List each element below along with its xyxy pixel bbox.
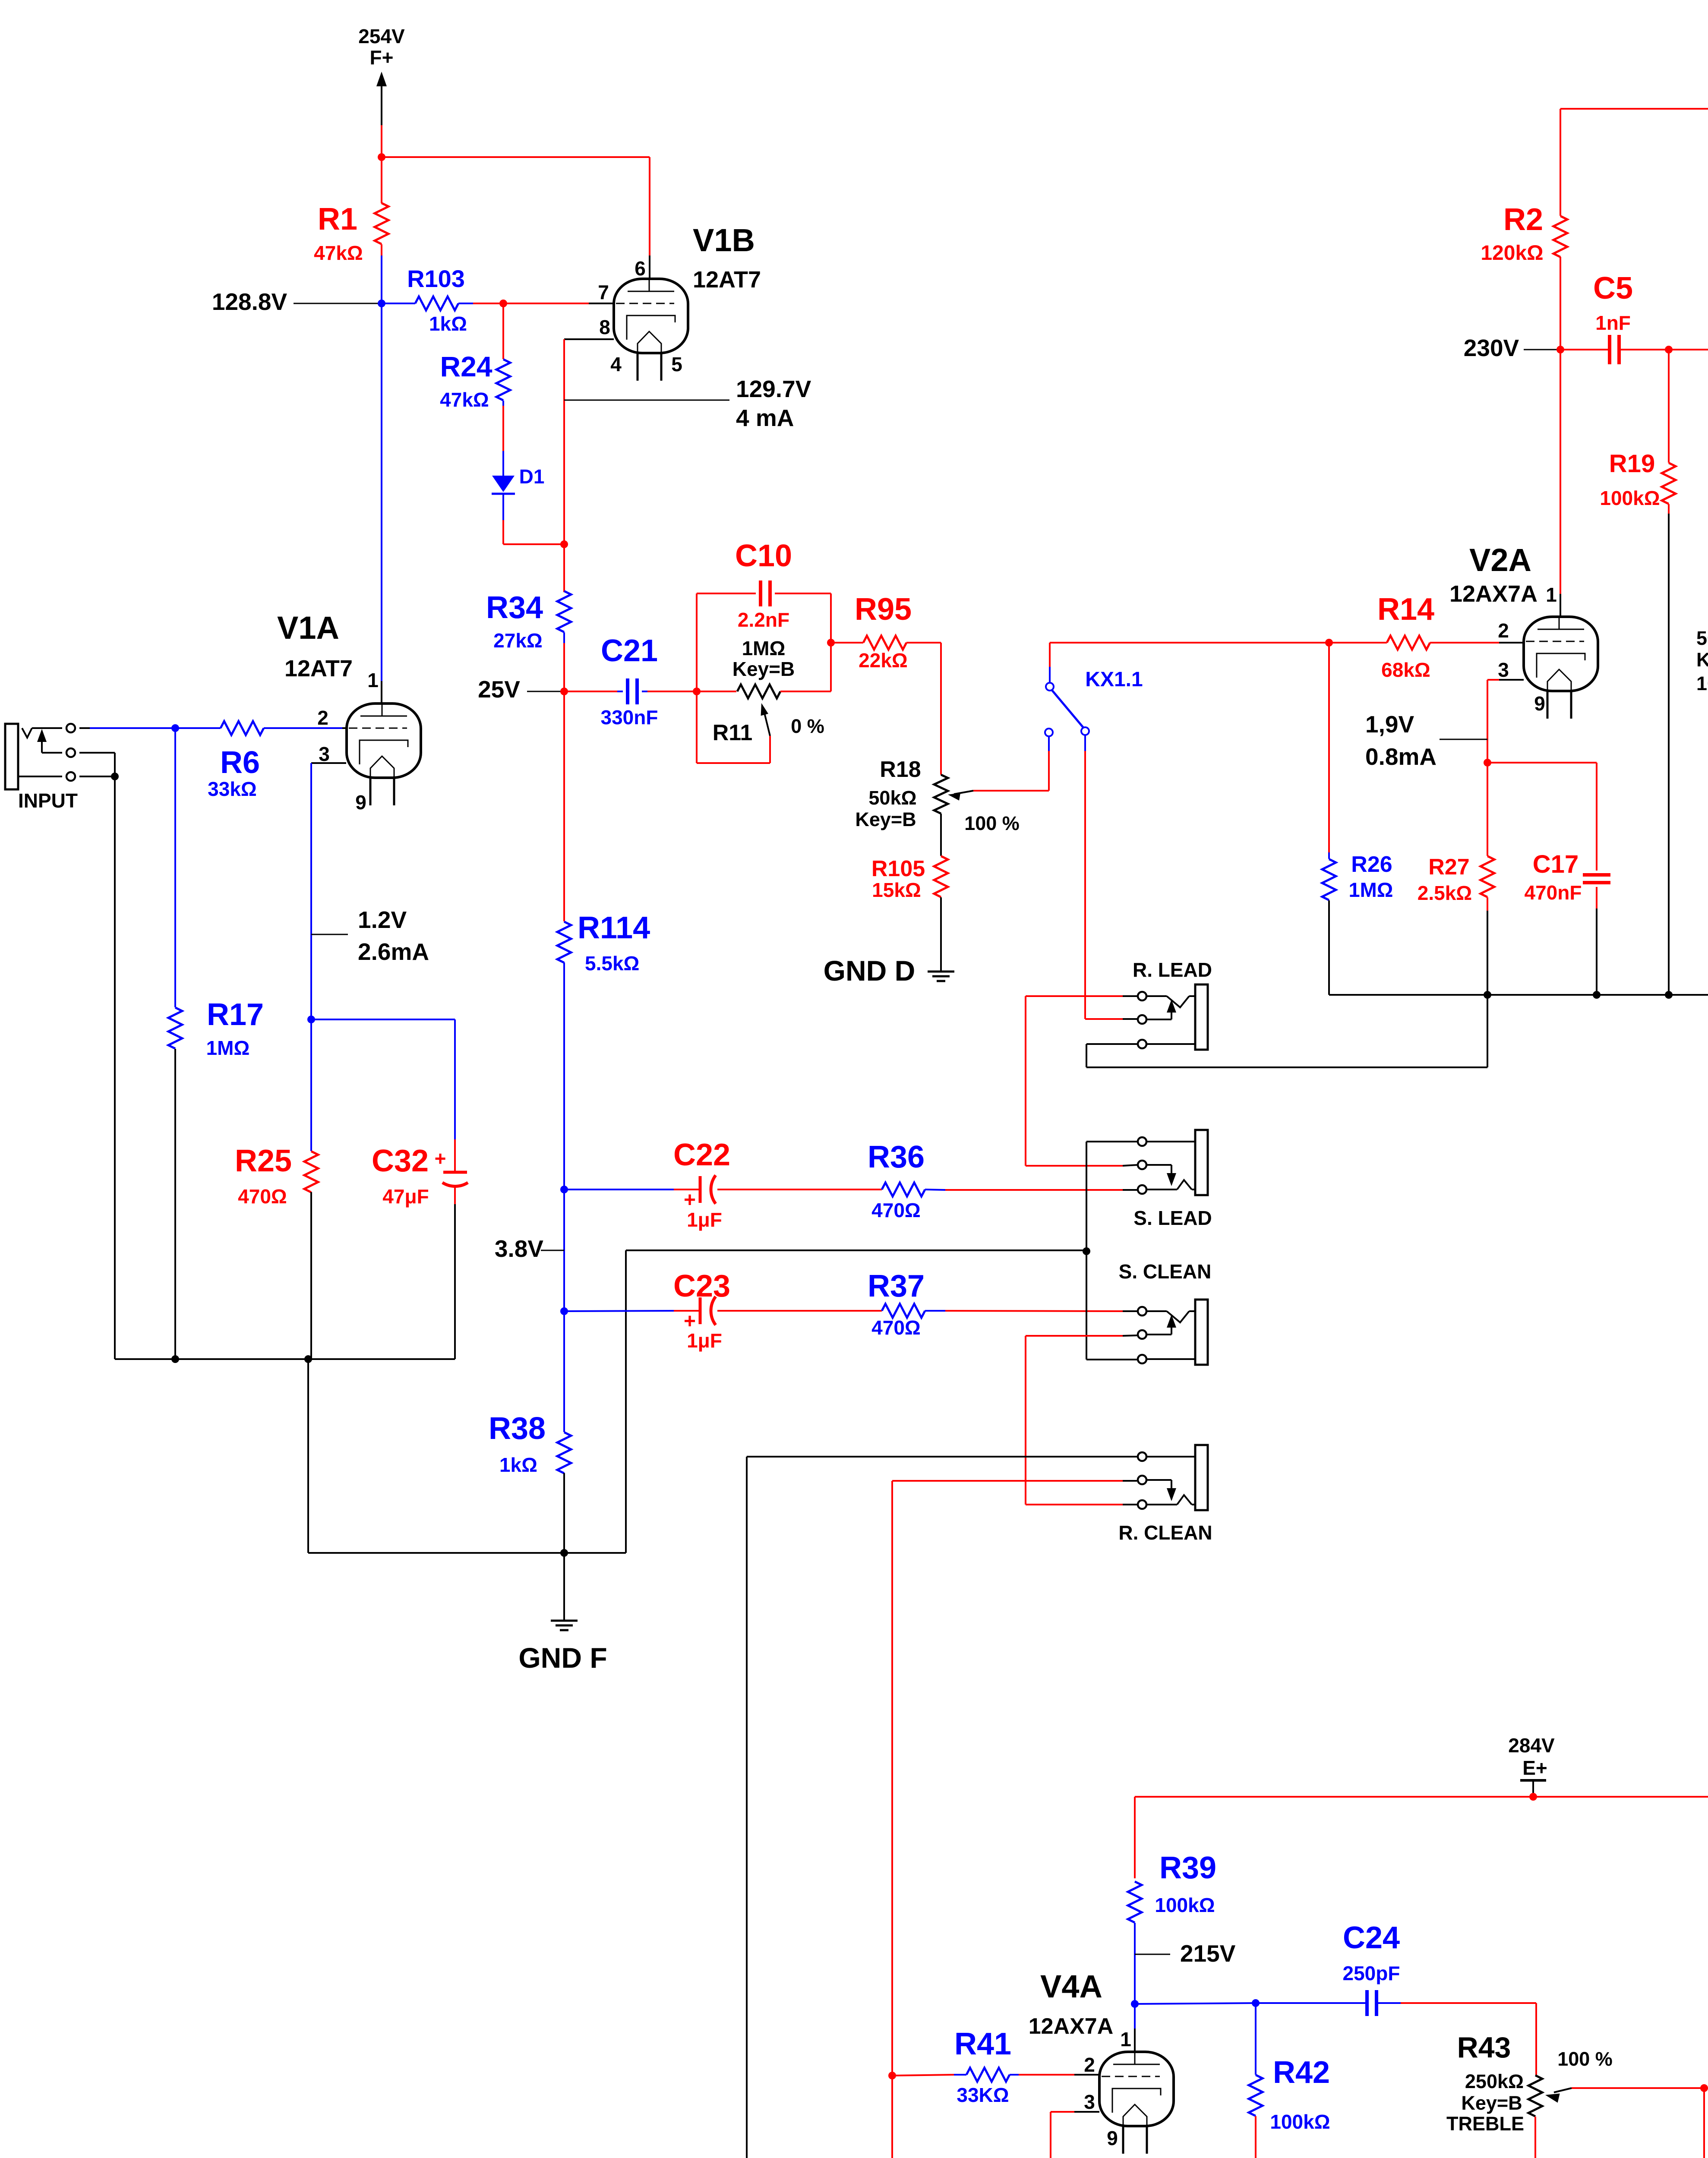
svg-text:R1: R1 [318, 202, 357, 237]
svg-text:R2: R2 [1503, 202, 1543, 237]
svg-text:5: 5 [671, 353, 682, 375]
svg-text:R41: R41 [954, 2027, 1011, 2061]
svg-text:9: 9 [355, 791, 366, 814]
svg-text:120kΩ: 120kΩ [1481, 242, 1543, 265]
svg-text:R37: R37 [868, 1269, 925, 1303]
svg-text:V1A: V1A [277, 610, 339, 646]
svg-text:GND D: GND D [824, 955, 916, 987]
svg-text:INPUT: INPUT [18, 789, 78, 812]
svg-text:12AT7: 12AT7 [284, 656, 353, 681]
svg-text:6: 6 [635, 257, 646, 280]
svg-text:1,9V: 1,9V [1365, 711, 1414, 738]
svg-text:4 mA: 4 mA [736, 404, 794, 431]
svg-text:100 %: 100 % [964, 812, 1020, 834]
svg-text:R11: R11 [713, 720, 753, 745]
svg-text:68kΩ: 68kΩ [1381, 659, 1430, 681]
svg-text:1μF: 1μF [687, 1329, 722, 1352]
svg-text:3.8V: 3.8V [495, 1235, 543, 1262]
svg-text:25V: 25V [478, 676, 520, 703]
svg-text:V4A: V4A [1040, 1969, 1102, 2004]
svg-text:470Ω: 470Ω [871, 1199, 921, 1221]
svg-text:+: + [435, 1147, 446, 1170]
svg-text:3: 3 [1084, 2091, 1095, 2113]
svg-text:100 %: 100 % [1557, 2048, 1613, 2070]
svg-text:V2A: V2A [1469, 542, 1531, 578]
svg-text:33kΩ: 33kΩ [208, 778, 257, 800]
svg-text:C10: C10 [735, 539, 792, 573]
svg-text:E+: E+ [1522, 1757, 1547, 1779]
svg-text:R19: R19 [1609, 450, 1655, 478]
svg-text:2: 2 [1084, 2054, 1095, 2076]
svg-text:4: 4 [610, 353, 622, 375]
svg-text:C5: C5 [1593, 271, 1633, 306]
svg-text:330nF: 330nF [601, 706, 658, 729]
svg-text:R103: R103 [407, 265, 465, 292]
svg-text:33KΩ: 33KΩ [957, 2084, 1009, 2106]
svg-text:R36: R36 [868, 1140, 925, 1174]
svg-text:S. CLEAN: S. CLEAN [1119, 1260, 1212, 1283]
svg-text:100 %: 100 % [1696, 672, 1708, 694]
svg-text:100kΩ: 100kΩ [1600, 487, 1660, 509]
svg-text:R. LEAD: R. LEAD [1133, 959, 1212, 981]
svg-text:C22: C22 [673, 1138, 730, 1172]
svg-text:R26: R26 [1351, 852, 1392, 877]
svg-text:1MΩ: 1MΩ [206, 1037, 250, 1059]
svg-text:R38: R38 [489, 1411, 546, 1446]
svg-text:47kΩ: 47kΩ [314, 242, 363, 264]
svg-text:250pF: 250pF [1343, 1962, 1400, 1984]
svg-text:2.6mA: 2.6mA [358, 938, 429, 965]
svg-text:0 %: 0 % [791, 715, 824, 737]
svg-text:284V: 284V [1508, 1734, 1555, 1757]
svg-text:R25: R25 [235, 1144, 292, 1178]
svg-text:R43: R43 [1457, 2031, 1511, 2064]
svg-text:0.8mA: 0.8mA [1365, 743, 1436, 770]
svg-text:R. CLEAN: R. CLEAN [1118, 1521, 1212, 1544]
svg-text:KX1.1: KX1.1 [1085, 668, 1143, 691]
svg-text:R24: R24 [440, 350, 492, 382]
svg-text:C21: C21 [601, 634, 658, 668]
svg-text:230V: 230V [1464, 334, 1519, 361]
svg-text:2: 2 [1498, 619, 1509, 642]
svg-text:128.8V: 128.8V [212, 288, 287, 315]
svg-text:R105: R105 [871, 856, 925, 881]
svg-text:S. LEAD: S. LEAD [1133, 1207, 1212, 1229]
svg-text:TREBLE: TREBLE [1446, 2113, 1524, 2135]
svg-text:1MΩ: 1MΩ [742, 637, 786, 659]
svg-text:254V: 254V [358, 25, 405, 47]
svg-text:R6: R6 [220, 745, 260, 780]
svg-text:Key=B: Key=B [732, 658, 795, 680]
svg-text:1: 1 [1120, 2028, 1131, 2051]
svg-text:1: 1 [367, 669, 379, 691]
svg-text:C32: C32 [372, 1144, 429, 1178]
svg-text:7: 7 [598, 281, 609, 303]
svg-text:100kΩ: 100kΩ [1155, 1894, 1215, 1916]
svg-text:F+: F+ [370, 46, 394, 69]
svg-text:129.7V: 129.7V [736, 375, 811, 402]
svg-text:C23: C23 [673, 1269, 730, 1303]
svg-text:R114: R114 [578, 911, 650, 945]
svg-text:9: 9 [1534, 692, 1545, 715]
svg-text:Key=B: Key=B [1461, 2092, 1522, 2114]
svg-text:215V: 215V [1180, 1940, 1236, 1967]
svg-text:3: 3 [1498, 659, 1509, 681]
svg-text:Key=B: Key=B [1696, 649, 1708, 671]
svg-text:R34: R34 [486, 590, 543, 625]
svg-text:27kΩ: 27kΩ [493, 629, 543, 652]
svg-text:2: 2 [317, 707, 328, 729]
svg-text:8: 8 [599, 316, 610, 338]
svg-text:12AX7A: 12AX7A [1029, 2014, 1114, 2039]
svg-text:R14: R14 [1377, 592, 1434, 627]
svg-text:D1: D1 [519, 465, 545, 488]
svg-text:250kΩ: 250kΩ [1465, 2070, 1524, 2092]
svg-text:Key=B: Key=B [855, 808, 916, 830]
svg-text:15kΩ: 15kΩ [872, 879, 921, 901]
svg-text:5.5kΩ: 5.5kΩ [585, 952, 639, 975]
svg-text:470nF: 470nF [1525, 881, 1582, 904]
svg-text:R18: R18 [880, 757, 921, 782]
svg-text:12AT7: 12AT7 [693, 267, 761, 293]
svg-text:47kΩ: 47kΩ [440, 388, 489, 411]
svg-text:C24: C24 [1343, 1921, 1400, 1955]
svg-text:22kΩ: 22kΩ [859, 649, 908, 672]
svg-text:V1B: V1B [693, 222, 755, 258]
svg-text:1nF: 1nF [1595, 312, 1631, 334]
svg-text:1.2V: 1.2V [358, 906, 407, 933]
svg-text:1: 1 [1546, 584, 1557, 606]
svg-text:R17: R17 [207, 997, 264, 1032]
svg-text:R95: R95 [855, 592, 912, 627]
svg-text:100kΩ: 100kΩ [1270, 2111, 1330, 2133]
svg-text:3: 3 [319, 743, 330, 765]
svg-text:1kΩ: 1kΩ [499, 1454, 537, 1476]
svg-text:R42: R42 [1273, 2055, 1330, 2090]
svg-text:GND F: GND F [518, 1642, 607, 1674]
svg-text:470Ω: 470Ω [871, 1316, 921, 1339]
svg-text:R39: R39 [1159, 1851, 1216, 1885]
svg-text:2.2nF: 2.2nF [738, 609, 789, 631]
svg-text:1MΩ: 1MΩ [1349, 878, 1393, 901]
svg-text:47μF: 47μF [382, 1185, 429, 1208]
svg-text:R27: R27 [1428, 855, 1469, 880]
svg-text:50kΩ: 50kΩ [868, 787, 916, 809]
svg-text:12AX7A: 12AX7A [1449, 581, 1538, 607]
svg-text:470Ω: 470Ω [238, 1185, 287, 1208]
svg-text:1kΩ: 1kΩ [429, 312, 467, 335]
svg-text:9: 9 [1107, 2127, 1118, 2149]
svg-text:50kΩ: 50kΩ [1696, 627, 1708, 649]
svg-text:1μF: 1μF [687, 1208, 722, 1231]
svg-text:2.5kΩ: 2.5kΩ [1418, 882, 1472, 904]
svg-text:C17: C17 [1533, 850, 1579, 878]
